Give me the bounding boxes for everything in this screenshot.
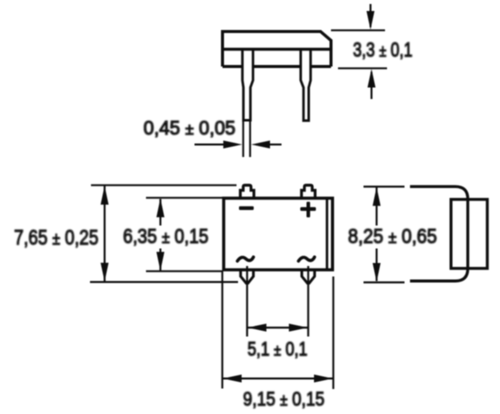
svg-text:8,25 ± 0,65: 8,25 ± 0,65: [348, 225, 437, 248]
svg-text:0,45 ± 0,05: 0,45 ± 0,05: [144, 119, 236, 140]
svg-text:3,3 ± 0,1: 3,3 ± 0,1: [353, 40, 413, 62]
svg-text:9,15 ± 0,15: 9,15 ± 0,15: [243, 389, 325, 411]
svg-text:7,65 ± 0,25: 7,65 ± 0,25: [14, 224, 99, 249]
svg-text:6,35 ± 0,15: 6,35 ± 0,15: [123, 226, 208, 248]
svg-text:5,1 ± 0,1: 5,1 ± 0,1: [248, 340, 308, 361]
